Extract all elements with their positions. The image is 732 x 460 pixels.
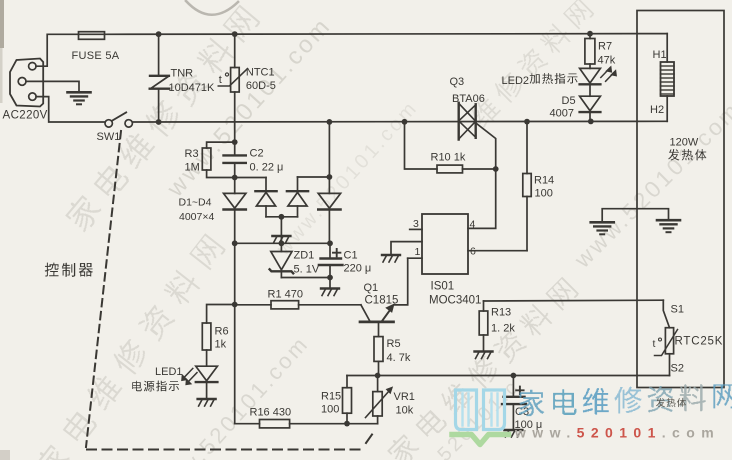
wire DC plus rail bbox=[235, 242, 330, 244]
wire R6 top bbox=[207, 305, 235, 324]
label C3 plus sign bbox=[516, 387, 523, 394]
wire R5 bottom bbox=[378, 361, 380, 375]
wire pin4 bbox=[468, 169, 496, 228]
label NTC1 bbox=[246, 67, 275, 79]
node AC2-D3D4 junction bbox=[327, 174, 333, 180]
ground earth plug bbox=[68, 92, 91, 104]
capacitor C2 0.22u bbox=[224, 142, 246, 177]
label kongzhiqi bbox=[45, 263, 93, 277]
logo site name bbox=[519, 384, 732, 416]
label jiare zhishi bbox=[530, 73, 578, 84]
node NTC top junction bbox=[232, 31, 238, 37]
label R7 bbox=[598, 41, 612, 53]
label Q3 bbox=[450, 76, 465, 88]
label 10D471K bbox=[169, 82, 216, 94]
svg-text:ZD1: ZD1 bbox=[294, 250, 315, 262]
label 100 R15 bbox=[321, 404, 339, 416]
wire earth link bbox=[602, 209, 668, 222]
svg-text:1: 1 bbox=[415, 246, 421, 258]
label pin 1 bbox=[415, 246, 421, 258]
wire DC bus down bbox=[234, 243, 236, 423]
svg-text:R14: R14 bbox=[534, 175, 554, 187]
svg-text:4007: 4007 bbox=[550, 108, 574, 120]
wire C1 to ground bbox=[329, 278, 331, 289]
svg-text:D1~D4: D1~D4 bbox=[179, 197, 212, 209]
ground chassis R13 bbox=[475, 352, 493, 359]
wire pin1 bbox=[408, 257, 422, 259]
label C1815 bbox=[365, 295, 399, 307]
watermark arc artifact top bbox=[186, 1, 238, 15]
svg-text:R1 470: R1 470 bbox=[268, 289, 303, 301]
wire R14 bottom bbox=[526, 197, 528, 251]
wire D2D3 join bbox=[266, 216, 298, 218]
svg-text:C1: C1 bbox=[344, 250, 358, 262]
wire plug earth bbox=[26, 81, 79, 91]
wire H2 bottom lead bbox=[666, 96, 668, 121]
svg-text:www.520101.com: www.520101.com bbox=[514, 425, 720, 441]
label SW1 bbox=[97, 131, 121, 143]
resistor R14 100 bbox=[523, 174, 531, 197]
wire NTC1 bottom lead crossing neutral bbox=[234, 92, 236, 142]
svg-text:Q3: Q3 bbox=[450, 76, 465, 88]
label R15 bbox=[321, 391, 341, 403]
label R14 bbox=[534, 175, 554, 187]
node D5 bottom junction bbox=[588, 119, 594, 125]
label t NTC1 bbox=[219, 73, 229, 86]
label t RTC bbox=[653, 338, 662, 350]
diode D4 bbox=[318, 177, 340, 243]
svg-text:H1: H1 bbox=[653, 49, 667, 61]
label 5.1V bbox=[294, 264, 320, 276]
svg-text:1k: 1k bbox=[215, 339, 227, 351]
node rail ZD1 junction bbox=[279, 240, 285, 246]
svg-text:R15: R15 bbox=[321, 391, 341, 403]
opto IS01 MOC3401 body bbox=[422, 214, 468, 274]
scan edge artifact left bbox=[0, 0, 10, 460]
heater enclosure box bbox=[637, 11, 724, 388]
label BTA06 bbox=[452, 93, 485, 105]
varistor TNR 10D471K bbox=[150, 76, 170, 89]
wire VR1 bottom bbox=[377, 416, 379, 424]
diode D1 bbox=[224, 178, 246, 244]
label 47k bbox=[598, 55, 616, 67]
svg-text:AC220V: AC220V bbox=[3, 110, 48, 122]
svg-text:120W: 120W bbox=[670, 137, 699, 149]
label RTC25K bbox=[675, 336, 724, 348]
wire R3 top bbox=[207, 142, 235, 148]
svg-text:S2: S2 bbox=[671, 363, 684, 375]
wire TNR bottom lead bbox=[158, 89, 160, 122]
wire R15 top bbox=[346, 376, 348, 388]
wire D5 bottom bbox=[589, 113, 591, 122]
label 120W bbox=[670, 137, 699, 149]
wire LED1 bottom bbox=[206, 383, 208, 399]
svg-text:R5: R5 bbox=[387, 338, 401, 350]
svg-text:1M: 1M bbox=[185, 162, 200, 174]
label LED1 bbox=[155, 366, 183, 378]
zener ZD1 5.1V bbox=[270, 243, 294, 277]
svg-text:3: 3 bbox=[413, 218, 419, 230]
wire AC1 to D2 bbox=[235, 177, 266, 179]
ground chassis at bridge minus bbox=[272, 236, 290, 243]
svg-text:NTC1: NTC1 bbox=[246, 67, 275, 79]
label R16 430 bbox=[250, 407, 292, 419]
label VR1 bbox=[394, 391, 415, 403]
ground chassis C1 bbox=[321, 289, 339, 296]
node D2D3 junction bbox=[279, 214, 285, 220]
label fare ti bbox=[668, 149, 706, 160]
wire R16 left bbox=[235, 423, 260, 425]
resistor R13 1.2k bbox=[479, 311, 488, 335]
resistor R6 1k bbox=[202, 323, 211, 350]
resistor R10 1k bbox=[437, 165, 463, 173]
wire S2 lead bbox=[669, 354, 671, 376]
label H1 bbox=[653, 49, 667, 61]
ground chassis LED1 bbox=[198, 399, 216, 406]
node rail C1 junction bbox=[327, 240, 333, 246]
node R1R6 junction bbox=[232, 302, 238, 308]
svg-text:t: t bbox=[219, 74, 222, 86]
wire R15 bottom bbox=[346, 413, 348, 424]
label 100 u bbox=[515, 419, 543, 431]
svg-text:100: 100 bbox=[535, 188, 553, 200]
svg-text:RTC25K: RTC25K bbox=[675, 336, 724, 348]
label C1 bbox=[344, 250, 358, 262]
svg-text:SW1: SW1 bbox=[97, 131, 121, 143]
wire VR1 top bbox=[377, 376, 379, 392]
wire AC2 to D3 bbox=[298, 176, 330, 178]
wire pin3 stub bbox=[410, 228, 422, 230]
wire Q1 emitter bbox=[378, 323, 380, 337]
label D5 bbox=[562, 95, 576, 107]
svg-text:100: 100 bbox=[321, 404, 339, 416]
wire R15-S2 row bbox=[347, 375, 670, 377]
label ZD1 bbox=[294, 250, 315, 262]
wire R7 top bbox=[589, 34, 591, 39]
label C3 bbox=[515, 406, 529, 418]
thermistor RTC25K bbox=[655, 328, 678, 356]
svg-text:LED1: LED1 bbox=[155, 366, 183, 378]
led LED2 bbox=[580, 67, 617, 85]
label 4.7k bbox=[387, 352, 411, 364]
label IS01 bbox=[431, 281, 455, 293]
watermark url text bbox=[150, 12, 732, 460]
svg-text:www.520101.com: www.520101.com bbox=[150, 330, 314, 460]
label 4007 bbox=[550, 108, 574, 120]
label 60D-5 bbox=[246, 80, 276, 92]
wire R3 bottom bbox=[207, 170, 235, 178]
wire pin2 to ground bbox=[391, 242, 422, 255]
wire top rail L bbox=[105, 33, 668, 36]
svg-text:47k: 47k bbox=[598, 55, 616, 67]
svg-text:R7: R7 bbox=[598, 41, 612, 53]
label pin 3 bbox=[413, 218, 419, 230]
label S2 bbox=[671, 363, 684, 375]
label TNR bbox=[171, 68, 194, 80]
fuse FUSE1 5A bbox=[79, 32, 105, 40]
label MOC3401 bbox=[429, 295, 481, 307]
led LED1 bbox=[182, 366, 218, 385]
wire C3 bottom bbox=[512, 404, 514, 429]
label Q1 bbox=[364, 282, 379, 294]
node R10 branch junction bbox=[402, 119, 408, 125]
logo url bbox=[514, 425, 720, 441]
svg-text:5. 1V: 5. 1V bbox=[294, 264, 320, 276]
triac Q3 BTA06 bbox=[459, 103, 476, 140]
logo book icon bbox=[452, 390, 509, 445]
label R3 bbox=[185, 148, 199, 160]
svg-text:Q1: Q1 bbox=[364, 282, 379, 294]
wire NTC1 top lead bbox=[234, 34, 236, 67]
node C1 bottom junction bbox=[327, 275, 333, 281]
wire pin6 bbox=[468, 250, 527, 252]
svg-text:0. 22 μ: 0. 22 μ bbox=[250, 162, 284, 174]
diode D5 bbox=[580, 96, 601, 112]
node C3 junction bbox=[511, 373, 517, 379]
svg-text:10k: 10k bbox=[396, 405, 414, 417]
svg-text:S1: S1 bbox=[671, 304, 684, 316]
label FUSE 5A bbox=[72, 50, 120, 62]
label R13 bbox=[491, 307, 511, 319]
svg-text:VR1: VR1 bbox=[394, 391, 415, 403]
label R6 bbox=[215, 326, 229, 338]
label 10k bbox=[396, 405, 414, 417]
label 1k R6 bbox=[215, 339, 227, 351]
svg-text:FUSE 5A: FUSE 5A bbox=[72, 50, 120, 62]
svg-text:TNR: TNR bbox=[171, 68, 194, 80]
node rail left junction bbox=[232, 240, 238, 246]
label C2 bbox=[250, 148, 264, 160]
node R3C2 top junction bbox=[232, 139, 238, 145]
node fuse-TNR junction bbox=[156, 31, 162, 37]
resistor R1 470 bbox=[271, 301, 299, 309]
label AC220V bbox=[3, 110, 48, 122]
label LED2 bbox=[502, 75, 530, 87]
wire neutral rail bbox=[132, 120, 667, 123]
label R1 470 bbox=[268, 289, 303, 301]
node R15 bottom junction bbox=[344, 421, 350, 427]
svg-text:4: 4 bbox=[470, 219, 476, 231]
svg-text:LED2: LED2 bbox=[502, 75, 530, 87]
label H2 bbox=[650, 104, 664, 116]
wire R16 right bbox=[290, 423, 378, 425]
potentiometer VR1 10k bbox=[366, 387, 393, 417]
label 4007x4 bbox=[179, 211, 214, 223]
thermistor NTC1 60D-5 bbox=[218, 68, 247, 93]
wire Q3 gate bbox=[477, 124, 496, 170]
label 1.2k bbox=[491, 323, 515, 335]
resistor R7 47k bbox=[585, 39, 595, 65]
svg-text:www.520101.com: www.520101.com bbox=[161, 12, 337, 203]
AC plug P1 bbox=[10, 59, 43, 107]
svg-text:R6: R6 bbox=[215, 326, 229, 338]
wire S1 lead bbox=[663, 300, 669, 328]
svg-text:BTA06: BTA06 bbox=[452, 93, 485, 105]
svg-text:4007×4: 4007×4 bbox=[179, 211, 214, 223]
label pin 4 bbox=[470, 219, 476, 231]
node gate junction bbox=[493, 166, 499, 172]
heater element H1-H2 bbox=[661, 62, 675, 96]
wire R13 top bbox=[483, 301, 485, 311]
svg-text:R13: R13 bbox=[491, 307, 511, 319]
svg-text:6: 6 bbox=[470, 246, 476, 258]
svg-text:H2: H2 bbox=[650, 104, 664, 116]
label R5 bbox=[387, 338, 401, 350]
capacitor C1 220u bbox=[319, 243, 343, 277]
wire plug neutral bbox=[36, 97, 105, 122]
small text under box bbox=[656, 398, 686, 407]
wire R14 top bbox=[526, 122, 528, 174]
svg-text:10D471K: 10D471K bbox=[169, 82, 216, 94]
label R10 1k bbox=[431, 152, 466, 164]
svg-text:220 μ: 220 μ bbox=[344, 263, 372, 275]
ground chassis C3 bbox=[504, 430, 522, 437]
label pin 6 bbox=[470, 246, 476, 258]
controller dashed boundary bbox=[86, 131, 372, 450]
wire R1 left bbox=[235, 304, 271, 306]
capacitor C3 100u bbox=[502, 397, 526, 404]
wire ZD1 to C1 bottom bbox=[281, 277, 330, 279]
svg-text:R3: R3 bbox=[185, 148, 199, 160]
watermark diagonal text bbox=[32, 0, 595, 460]
svg-text:R16 430: R16 430 bbox=[250, 407, 292, 419]
node R7 top junction bbox=[587, 31, 593, 37]
resistor R3 1M bbox=[202, 148, 211, 170]
switch SW1 bbox=[105, 112, 132, 127]
transistor Q1 C1815 bbox=[360, 304, 394, 322]
wire H1 top lead bbox=[666, 34, 668, 62]
diode D2 bbox=[255, 178, 276, 217]
node bridge AC1 junction bbox=[232, 175, 238, 181]
node R14 branch junction bbox=[524, 119, 530, 125]
node bridge AC2 junction bbox=[327, 119, 333, 125]
svg-text:MOC3401: MOC3401 bbox=[429, 295, 481, 307]
svg-text:R10 1k: R10 1k bbox=[431, 152, 466, 164]
wire LED2 to D5 bbox=[589, 85, 591, 96]
resistor R5 4.7k bbox=[374, 337, 383, 362]
wire R10 right bbox=[463, 168, 496, 170]
wire R1 to Q1 base bbox=[299, 304, 361, 306]
node TNR bottom junction bbox=[156, 119, 162, 125]
svg-text:D5: D5 bbox=[562, 95, 576, 107]
svg-text:IS01: IS01 bbox=[431, 281, 455, 293]
label dianyuan zhishi bbox=[132, 381, 179, 392]
label 1M bbox=[185, 162, 200, 174]
wire R7 to LED2 bbox=[589, 64, 591, 68]
diode D3 bbox=[287, 177, 308, 217]
label 100 R14 bbox=[535, 188, 553, 200]
label 220 u bbox=[344, 263, 372, 275]
svg-text:4. 7k: 4. 7k bbox=[387, 352, 411, 364]
wire AC2 vertical bbox=[328, 122, 330, 177]
wire R13 to S1 bbox=[484, 299, 664, 302]
label 0.22 u bbox=[250, 162, 284, 174]
svg-text:C2: C2 bbox=[250, 148, 264, 160]
svg-text:1. 2k: 1. 2k bbox=[491, 323, 515, 335]
resistor R16 430 bbox=[260, 420, 290, 428]
wire R6 bottom bbox=[206, 350, 208, 366]
wire TNR top lead bbox=[158, 34, 160, 75]
wire D2D3 to rail bbox=[280, 217, 282, 244]
wire plug live to fuse bbox=[36, 34, 79, 66]
ground chassis pin2 bbox=[382, 255, 400, 262]
wire C3 top bbox=[512, 376, 514, 397]
svg-text:60D-5: 60D-5 bbox=[246, 80, 276, 92]
ground earth right bbox=[657, 220, 680, 232]
wire R10 left bbox=[405, 122, 438, 169]
svg-text:t: t bbox=[653, 338, 656, 350]
label S1 bbox=[671, 304, 684, 316]
label D1~D4 bbox=[179, 197, 212, 209]
wire Q1 collector to pin1 bbox=[394, 258, 408, 305]
ground earth left bbox=[591, 222, 614, 234]
wire R13 bottom bbox=[483, 335, 485, 351]
resistor R15 100 bbox=[343, 388, 352, 414]
node R5 VR1 junction bbox=[375, 373, 381, 379]
label C1 plus sign bbox=[333, 249, 340, 256]
